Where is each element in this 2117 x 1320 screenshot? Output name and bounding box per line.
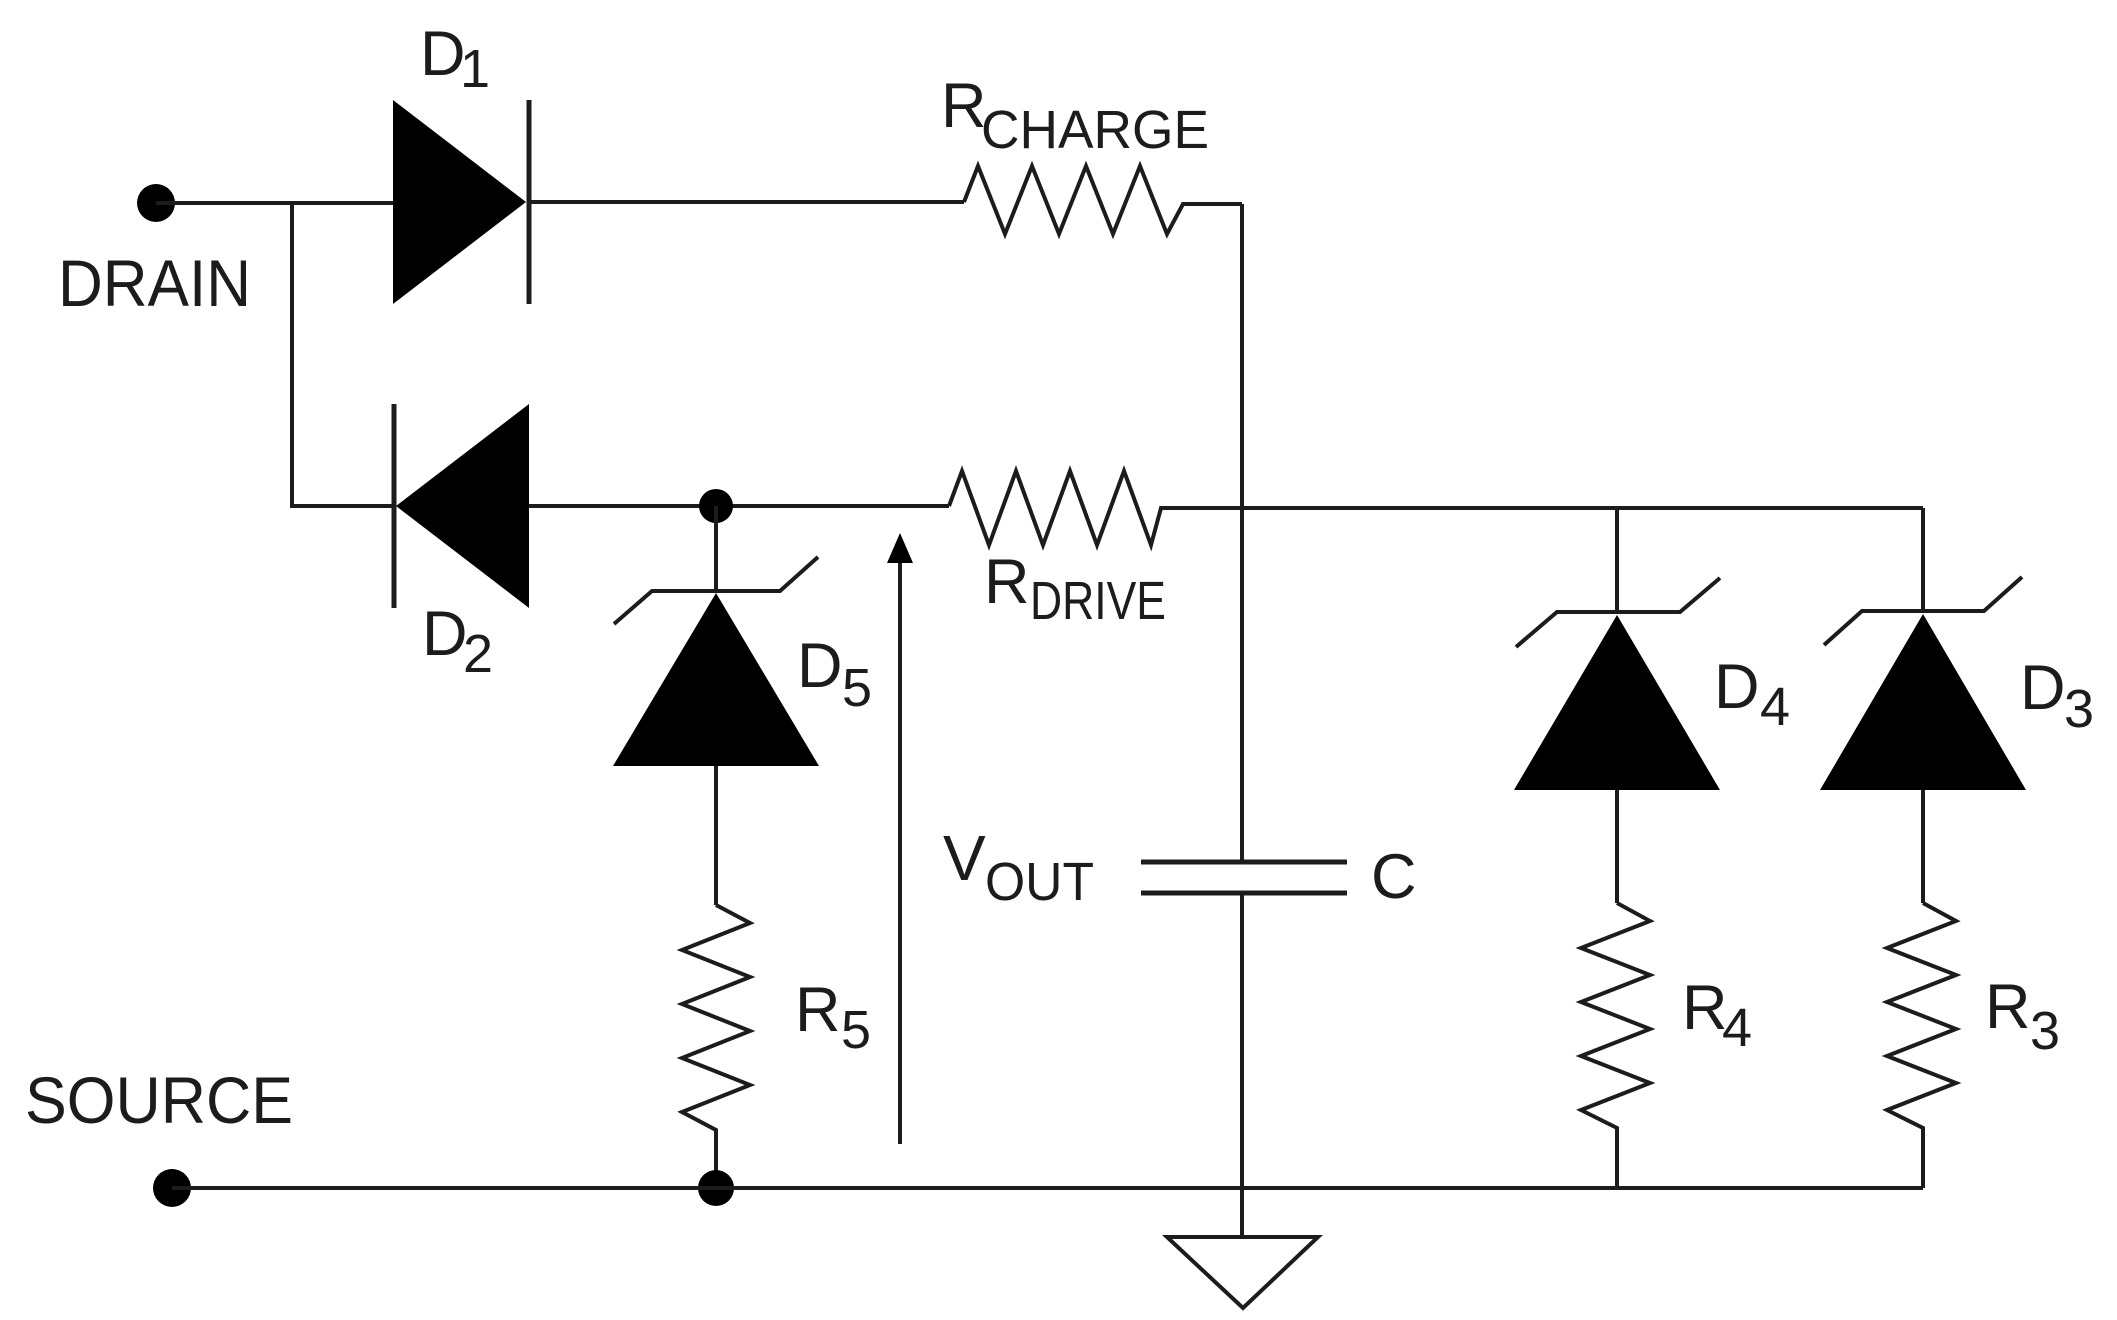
svg-text:D: D: [1714, 652, 1760, 722]
svg-text:3: 3: [2064, 679, 2094, 739]
zener diode D4 (stub, bent cathode bar, triangle): [1514, 508, 1720, 903]
label C: [1371, 842, 1417, 912]
svg-text:2: 2: [463, 624, 493, 684]
svg-text:C: C: [1371, 842, 1417, 912]
svg-text:V: V: [943, 822, 986, 894]
svg-text:R: R: [941, 71, 987, 141]
svg-text:D: D: [797, 631, 843, 701]
wire D1 cathode to R_CHARGE: [529, 200, 964, 204]
svg-text:4: 4: [1760, 677, 1790, 737]
resistor R4 zigzag vertical: [1581, 903, 1650, 1188]
svg-text:D: D: [420, 19, 466, 89]
svg-text:D: D: [422, 599, 468, 669]
label R_DRIVE: [984, 547, 1166, 631]
svg-text:4: 4: [1722, 998, 1752, 1058]
svg-text:D: D: [2020, 653, 2066, 723]
ground symbol: [1167, 1237, 1318, 1308]
arrow VOUT: [887, 533, 913, 1144]
label D1: [420, 19, 490, 99]
resistor R5 zigzag vertical: [682, 905, 750, 1188]
svg-text:5: 5: [841, 1000, 871, 1060]
node junction dot row2 / D5: [699, 489, 733, 523]
resistor R_DRIVE zigzag: [949, 471, 1243, 545]
label VOUT: [943, 822, 1094, 912]
zener diode D3 (corner stub, bent cathode bar, triangle): [1820, 508, 2026, 903]
svg-text:1: 1: [460, 39, 490, 99]
label D2: [422, 599, 493, 684]
label DRAIN: [58, 246, 251, 320]
svg-text:DRAIN: DRAIN: [58, 246, 251, 320]
diode D1 (triangle + cathode bar): [393, 100, 529, 304]
wire bottom rail SOURCE to R3: [172, 1186, 1923, 1190]
svg-text:3: 3: [2030, 1001, 2060, 1061]
label R3: [1985, 972, 2060, 1061]
svg-text:DRIVE: DRIVE: [1030, 571, 1166, 631]
node DRAIN terminal dot: [137, 184, 175, 222]
label D5: [797, 631, 872, 718]
svg-text:CHARGE: CHARGE: [981, 100, 1209, 160]
svg-text:R: R: [795, 975, 841, 1045]
label D4: [1714, 652, 1790, 737]
wire row2 from bus crossing to D3 corner: [1243, 506, 1923, 510]
resistor R3 zigzag vertical: [1887, 903, 1956, 1188]
diode D2 (cathode bar + triangle pointing left): [394, 404, 529, 608]
label SOURCE: [25, 1063, 293, 1137]
node SOURCE terminal dot: [153, 1169, 191, 1207]
capacitor C plates: [1141, 862, 1347, 893]
svg-text:R: R: [984, 547, 1030, 617]
svg-text:R: R: [1985, 972, 2031, 1042]
node junction dot bottom R5: [698, 1170, 734, 1206]
wire branch from row1 down to row2: [292, 203, 394, 506]
svg-text:SOURCE: SOURCE: [25, 1063, 293, 1137]
label R5: [795, 975, 871, 1060]
wire D2 anode to R_DRIVE (row 2): [529, 504, 949, 508]
svg-text:OUT: OUT: [985, 852, 1094, 912]
label R_CHARGE: [941, 71, 1209, 160]
resistor R_CHARGE zigzag: [964, 166, 1242, 234]
wire drain to D1 anode (row 1): [156, 201, 393, 205]
wire vertical bus from R_CHARGE down to capacitor top: [1240, 204, 1244, 862]
svg-text:R: R: [1682, 973, 1728, 1043]
wire capacitor bottom to ground: [1240, 893, 1244, 1235]
svg-text:5: 5: [842, 658, 872, 718]
label R4: [1682, 973, 1752, 1058]
label D3: [2020, 653, 2094, 739]
zener diode D5 (stub, bent cathode bar, triangle): [613, 506, 819, 905]
